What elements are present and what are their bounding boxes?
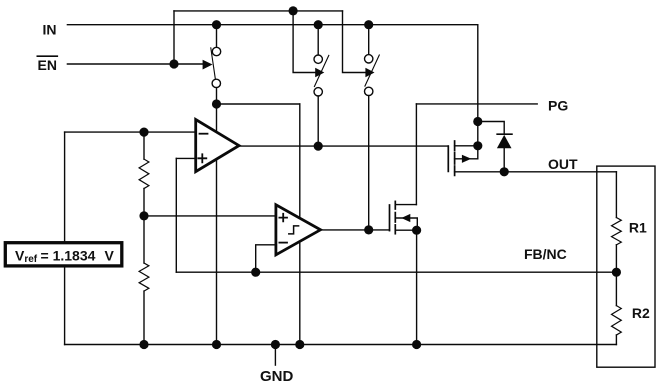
switch S3 actuator arrow xyxy=(365,68,374,78)
diode D1 body diode (cathode bar + triangle) xyxy=(497,134,512,148)
resistor divider upper (bandgap) top lead xyxy=(143,132,145,159)
wire R2 to GND rail xyxy=(615,335,617,345)
resistor R2 label xyxy=(632,305,650,321)
svg-text:EN: EN xyxy=(38,57,57,73)
op-amp U2 power-good comparator xyxy=(276,205,321,255)
svg-text:R1: R1 xyxy=(629,220,647,236)
junction diode/OUT xyxy=(500,167,509,176)
switch S2 actuator arrow xyxy=(315,68,324,78)
wire GND rail xyxy=(65,344,617,346)
junction EN branch xyxy=(169,59,178,68)
transistor Q1 body lead with arrow xyxy=(455,146,478,163)
switch S3 contact circle bottom xyxy=(365,87,373,95)
wire Q2 drain up to PG xyxy=(415,104,417,205)
node EN: pin label with overbar xyxy=(37,56,57,73)
junction bias2/GND xyxy=(295,340,304,349)
wire error-amp inverting input xyxy=(65,131,196,133)
transistor Q1 channel segments xyxy=(454,141,456,175)
junction IN/S2 xyxy=(314,20,323,29)
junction U2 output/S3 xyxy=(364,225,373,234)
wire GND pin stub xyxy=(274,345,276,366)
wire bias vertical through comparator to GND xyxy=(299,104,301,345)
junction GND pin xyxy=(271,340,280,349)
wire Vref tap to comparator noninverting input xyxy=(144,215,276,217)
junction divider/GND xyxy=(139,340,148,349)
resistor divider lower zigzag xyxy=(139,263,149,291)
Vref reference box xyxy=(5,243,122,266)
switch S1 actuator arrow xyxy=(203,60,213,70)
junction top rail/S2 control xyxy=(289,6,298,15)
transistor Q2 drain lead xyxy=(395,204,416,206)
wire control drop to switch S3 xyxy=(343,11,366,73)
wire IN rail vertical down to pass FET source xyxy=(477,25,479,146)
svg-text:GND: GND xyxy=(260,368,294,384)
svg-text:OUT: OUT xyxy=(548,156,578,172)
wire EN horizontal to switch S1 xyxy=(67,63,203,65)
resistor divider upper bottom lead xyxy=(143,189,145,216)
junction FB/R1/R2 xyxy=(612,268,621,277)
wire FB/NC horizontal xyxy=(176,271,616,273)
wire U1 noninverting input lead xyxy=(176,157,195,159)
wire Q2 source to GND xyxy=(416,230,418,344)
switch S2 contact circle top xyxy=(314,55,322,63)
switch S1 lever xyxy=(211,48,216,79)
junction IN/diode branch xyxy=(473,117,482,126)
junction bias1/GND xyxy=(212,340,221,349)
junction Q1 source xyxy=(473,141,482,150)
wire EN branch up xyxy=(173,11,175,64)
wire U2 output to Q2 gate xyxy=(321,229,390,231)
node PG: pin label xyxy=(548,97,568,113)
switch S2 top lead xyxy=(317,25,319,55)
switch S3 contact circle top xyxy=(365,55,373,63)
wire PG horizontal xyxy=(416,103,537,105)
switch S2 bottom lead to error-amp output node xyxy=(317,96,319,146)
wire U1 output to pass FET gate xyxy=(239,145,448,147)
transistor Q1 drain lead / OUT rail xyxy=(455,171,617,173)
junction U1 output/S2 xyxy=(314,142,323,151)
svg-text:R2: R2 xyxy=(632,305,650,321)
svg-text:FB/NC: FB/NC xyxy=(524,246,567,262)
wire FB node to R2 xyxy=(615,272,617,305)
transistor Q1 source lead xyxy=(455,145,478,147)
wire comparator inverting branch xyxy=(256,245,276,272)
switch S3 top lead xyxy=(368,25,370,55)
switch S2 lever xyxy=(314,55,328,86)
switch S1 top lead xyxy=(216,25,218,48)
resistor divider upper zigzag xyxy=(139,159,149,188)
wire diode branch from IN rail xyxy=(478,122,504,135)
wire left reference rail (passes behind Vref box) xyxy=(64,132,66,344)
wire bias vertical through error amp to GND xyxy=(216,104,218,345)
node FB/NC: pin label xyxy=(524,246,567,262)
resistor R1 label xyxy=(629,220,647,236)
junction FB/comparator branch xyxy=(251,268,260,277)
junction S1 output bias node xyxy=(212,99,221,108)
wire U1 + input down to FB line xyxy=(175,158,177,272)
transistor Q2 source lead xyxy=(395,229,416,231)
resistor R1 zigzag xyxy=(612,218,622,245)
resistor divider lower bottom lead xyxy=(143,291,145,344)
junction -input/divider top xyxy=(139,128,148,137)
transistor Q1 gate bar xyxy=(447,146,449,171)
switch S1 contact circle top xyxy=(212,47,220,55)
wire OUT down to R1 xyxy=(615,172,617,218)
junction IN/S3 xyxy=(364,20,373,29)
junction Q2 source xyxy=(412,226,421,235)
transistor Q2 gate bar xyxy=(389,205,391,231)
svg-text:PG: PG xyxy=(548,97,568,113)
node GND: pin label xyxy=(260,368,294,384)
transistor Q2 channel segments xyxy=(394,201,396,233)
junction Vref tap xyxy=(139,211,148,220)
op-amp U1 error amplifier xyxy=(196,120,239,172)
switch S1 contact circle bottom xyxy=(212,79,220,87)
wire bias link S1 output horizontal xyxy=(217,103,300,105)
wire diode anode to OUT xyxy=(503,148,505,172)
load box xyxy=(597,166,655,367)
node OUT: pin label xyxy=(548,156,578,172)
transistor Q2 body lead with arrow xyxy=(395,214,417,230)
wire IN rail horizontal xyxy=(67,24,477,26)
switch S2 contact circle bottom xyxy=(314,88,322,96)
node IN: pin label xyxy=(43,21,57,37)
junction Q2 source/GND xyxy=(412,340,421,349)
switch S3 lever xyxy=(365,55,379,86)
resistor R2 zigzag xyxy=(612,306,622,335)
resistor divider lower top lead xyxy=(143,216,145,263)
wire R1 to FB node xyxy=(615,245,617,272)
wire control drop to switch S2 xyxy=(293,11,315,73)
switch S3 bottom lead to comparator output node xyxy=(368,96,370,230)
switch S1 bottom lead xyxy=(216,88,218,104)
svg-text:IN: IN xyxy=(43,21,57,37)
wire EN top rail xyxy=(174,10,343,12)
junction IN/S1 xyxy=(212,20,221,29)
